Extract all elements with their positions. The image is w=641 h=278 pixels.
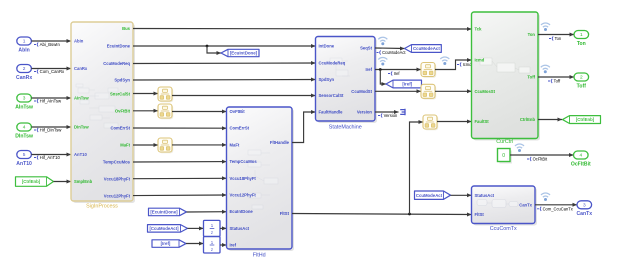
node junction FltSt — [408, 213, 411, 216]
svg-text:ComErrSt: ComErrSt — [110, 126, 130, 131]
signal label Version — [378, 113, 398, 118]
svg-text:Ton: Ton — [555, 36, 562, 41]
output port 2 Toff — [574, 73, 589, 89]
svg-text:4: 4 — [23, 125, 26, 131]
Goto tag CtrlEnb — [563, 116, 601, 124]
svg-text:AnT10: AnT10 — [74, 152, 87, 157]
wire Vccu12PhyFt to FltHd — [133, 193, 227, 197]
wire FltSt branch up to converter — [410, 120, 424, 214]
wire CcuModeAct to unit delay — [188, 226, 204, 230]
signal label Toff — [548, 79, 561, 84]
svg-text:SpdSyn: SpdSyn — [114, 78, 130, 83]
svg-text:ComErrSt: ComErrSt — [230, 126, 250, 131]
logging badge Ton — [541, 23, 550, 31]
svg-text:SnsrCalSt: SnsrCalSt — [110, 92, 131, 97]
svg-text:Hif_AnT10: Hif_AnT10 — [40, 155, 61, 160]
wire converter to CurCtrl CcuMosSt — [435, 89, 472, 93]
subsystem CurCtrl — [472, 12, 541, 145]
svg-text:CcuModeReq: CcuModeReq — [103, 61, 130, 66]
svg-text:Vccu18PhyFt: Vccu18PhyFt — [230, 176, 257, 181]
converter block on Iref/Icmd — [421, 63, 436, 78]
svg-text:Iref: Iref — [365, 67, 372, 72]
wire Ton to outport — [538, 33, 574, 37]
svg-text:CcuComTx: CcuComTx — [490, 226, 517, 232]
wire TempCcuMos to FltHd — [133, 160, 227, 164]
svg-text:Version: Version — [384, 113, 398, 118]
svg-text:CanTx: CanTx — [577, 211, 593, 217]
svg-text:[CtrlEnb]: [CtrlEnb] — [22, 179, 41, 184]
wire MaFt left stub — [133, 143, 158, 147]
wire MaFt to FltHd — [172, 143, 227, 147]
svg-text:StatusAct: StatusAct — [230, 226, 250, 231]
input port 5 AnT10 — [16, 151, 32, 167]
signal label Iref — [388, 71, 400, 76]
svg-text:[CcuModeAct]: [CcuModeAct] — [149, 226, 179, 231]
svg-text:Iref: Iref — [394, 71, 401, 76]
svg-text:OcFltBit: OcFltBit — [533, 157, 548, 162]
From tag EcuIntDone (bottom) — [149, 208, 187, 216]
svg-text:OcFltBit: OcFltBit — [571, 161, 591, 167]
wire CtrlEnb to Goto — [538, 118, 562, 122]
signal label Icmd — [457, 62, 472, 67]
wire ComErrSt to FltHd — [133, 126, 227, 130]
converter block on CcuModSt — [421, 84, 436, 99]
svg-text:Com_CcuCanTx: Com_CcuCanTx — [543, 207, 573, 212]
svg-text:[CtrlEnb]: [CtrlEnb] — [576, 117, 595, 122]
svg-text:MaFt: MaFt — [120, 143, 130, 148]
wire Iref to unit delay UD2 — [186, 242, 204, 246]
svg-text:DInTsw: DInTsw — [74, 125, 89, 130]
svg-text:DInTsw: DInTsw — [15, 133, 33, 139]
logging badge Iref — [378, 57, 387, 65]
unit delay UD1 — [204, 220, 221, 236]
wire Iref branch to Goto Iref — [380, 70, 386, 87]
wire CtrlEnb to SmplEnb — [54, 180, 72, 184]
svg-text:CtrlEnb: CtrlEnb — [520, 117, 536, 122]
svg-text:AbIn: AbIn — [18, 47, 29, 53]
logging badge OcFltBit — [515, 144, 524, 152]
node junction EcuIntDone — [206, 45, 209, 48]
svg-text:Bus: Bus — [122, 26, 131, 31]
svg-text:[EcuIntDone]: [EcuIntDone] — [150, 210, 178, 215]
svg-text:SmplEnb: SmplEnb — [74, 179, 93, 184]
From tag CcuModeAct (bottom-right) — [415, 191, 451, 199]
wire converter to CurCtrl Icmd — [435, 58, 472, 70]
From tag Iref (bottom-left) — [152, 240, 186, 248]
wire SnsrCalSt to StateMachine SensorCalSt — [172, 94, 316, 98]
wire constant to outport OcFltBit — [510, 153, 574, 157]
Goto tag Iref — [386, 80, 422, 88]
svg-text:IntDone: IntDone — [319, 44, 335, 49]
signal label Com_CcuCanTx — [537, 207, 573, 212]
signal label OcFltBit — [527, 157, 548, 162]
wire OvFtBit left stub — [133, 109, 158, 113]
subsystem CcuComTx — [472, 186, 538, 232]
svg-text:Toff: Toff — [554, 79, 561, 84]
signal label CcuModeAct — [377, 50, 407, 55]
svg-text:4: 4 — [579, 153, 582, 159]
signal label Hif_AInTsw — [34, 99, 62, 104]
wire CanRx to SigInProcess — [31, 67, 71, 71]
svg-text:AnT10: AnT10 — [16, 161, 32, 167]
wire UD1 to FltHd StatusAct — [220, 226, 227, 230]
svg-text:CanTx: CanTx — [519, 202, 532, 207]
wire branch to Goto EcuIntDone — [207, 46, 221, 55]
svg-text:SeqSt: SeqSt — [360, 46, 372, 51]
wire Iref to converter — [375, 68, 421, 72]
svg-text:OvFtBit: OvFtBit — [115, 109, 131, 114]
svg-text:Hif_DInTsw: Hif_DInTsw — [40, 128, 63, 133]
wire converter to CurCtrl FaultSt — [437, 120, 472, 124]
svg-text:CanRx: CanRx — [74, 66, 88, 71]
wire CanTx to outport — [535, 203, 577, 207]
svg-text:StatusAct: StatusAct — [475, 193, 495, 198]
svg-text:CcuModeAct: CcuModeAct — [413, 46, 440, 51]
signal label Hif_DInTsw — [34, 128, 62, 133]
svg-text:OvFtBit: OvFtBit — [230, 109, 246, 114]
output port 4 OcFltBit — [571, 151, 591, 167]
svg-text:0: 0 — [502, 153, 505, 159]
svg-text:MaFt: MaFt — [230, 142, 240, 147]
converter block on MaFt — [158, 138, 173, 153]
svg-text:3: 3 — [23, 96, 26, 102]
svg-text:FaultHandle: FaultHandle — [319, 110, 344, 115]
svg-text:Com_CanRx: Com_CanRx — [40, 69, 65, 74]
converter block on OvFtBit — [158, 104, 173, 119]
svg-text:AInTsw: AInTsw — [74, 96, 89, 101]
logging badge SeqSt — [378, 37, 387, 45]
wire OvFtBit to FltHd — [172, 110, 227, 114]
wire SnsrCalSt left stub — [133, 92, 158, 96]
svg-text:CurCtrl: CurCtrl — [496, 139, 513, 145]
svg-text:FltSt: FltSt — [280, 211, 290, 216]
signal label Ton — [549, 36, 562, 41]
svg-text:1: 1 — [23, 39, 26, 45]
svg-text:Hif_AInTsw: Hif_AInTsw — [40, 99, 62, 104]
signal label Hif_AnT10 — [34, 155, 61, 160]
svg-text:[EcuIntDone]: [EcuIntDone] — [230, 51, 258, 56]
wire CcuModeAct to CcuComTx StatusAct — [451, 193, 472, 197]
svg-text:1: 1 — [580, 32, 583, 38]
node junction Iref — [379, 68, 382, 71]
svg-text:EcuIntDone: EcuIntDone — [107, 44, 131, 49]
input port 3 AInTsw — [15, 94, 33, 110]
svg-text:CanRx: CanRx — [16, 75, 32, 81]
logging badge Icmd — [440, 57, 449, 65]
svg-text:2: 2 — [580, 75, 583, 81]
svg-text:CcuModeAct: CcuModeAct — [416, 193, 443, 198]
svg-text:FaultSt: FaultSt — [475, 119, 490, 124]
output port 1 Ton — [574, 31, 589, 47]
svg-text:z: z — [211, 247, 213, 252]
svg-text:3: 3 — [583, 202, 586, 208]
wire FltHandle to StateMachine FaultHandle — [292, 110, 316, 143]
wire DInTsw to SigInProcess — [31, 125, 71, 129]
Goto tag CcuModeAct — [405, 45, 442, 53]
svg-text:5: 5 — [23, 152, 26, 158]
svg-text:FltHandle: FltHandle — [270, 140, 290, 145]
svg-text:AInTsw: AInTsw — [15, 104, 33, 110]
svg-text:TempCcuMos: TempCcuMos — [103, 160, 131, 165]
logging badge Toff — [541, 65, 550, 73]
converter block on SnsrCalSt — [158, 87, 173, 102]
svg-text:SpdSyn: SpdSyn — [319, 77, 335, 82]
svg-text:[Iref]: [Iref] — [161, 241, 171, 246]
input port 1 AbIn — [17, 37, 32, 53]
converter block on FaultSt — [423, 115, 438, 130]
wire EcuIntDone to StateMachine IntDone — [133, 44, 316, 48]
svg-text:2: 2 — [23, 66, 26, 72]
constant 0 — [498, 149, 513, 164]
svg-text:StateMachine: StateMachine — [329, 125, 362, 131]
From tag CtrlEnb (left) — [16, 177, 54, 187]
input port 4 DInTsw — [15, 123, 33, 139]
svg-text:SigInProcess: SigInProcess — [86, 204, 118, 210]
svg-text:CcuMosSt: CcuMosSt — [475, 89, 496, 94]
svg-text:AbIn: AbIn — [74, 39, 84, 44]
svg-text:TempCcuMos: TempCcuMos — [230, 159, 258, 164]
wire FltSt to CcuComTx — [292, 213, 472, 217]
svg-text:FltSt: FltSt — [475, 212, 485, 217]
wire CcuModSt to converter — [375, 89, 421, 93]
svg-text:CcuModSt: CcuModSt — [351, 89, 372, 94]
wire Toff to outport — [538, 75, 574, 79]
svg-text:Vccu12PhyFt: Vccu12PhyFt — [104, 194, 131, 199]
svg-text:[Iref]: [Iref] — [402, 82, 412, 87]
svg-text:Toff: Toff — [527, 75, 535, 80]
svg-text:Icmd: Icmd — [463, 62, 473, 67]
logging badge CanTx — [541, 193, 550, 201]
svg-text:CcuModeAct: CcuModeAct — [382, 50, 406, 55]
svg-text:Tck: Tck — [475, 27, 483, 32]
svg-text:EcuIntDone: EcuIntDone — [230, 209, 254, 214]
wire Version to terminator — [375, 110, 399, 114]
svg-text:z: z — [211, 230, 213, 235]
svg-text:Iref: Iref — [230, 243, 237, 248]
wire Vccu18PhyFt to FltHd — [133, 176, 227, 180]
wire EcuIntDone to FltHd — [187, 210, 227, 214]
svg-text:Vccu12PhyFt: Vccu12PhyFt — [230, 193, 257, 198]
terminator Version — [400, 109, 405, 115]
output port 3 CanTx — [577, 201, 593, 217]
signal label Com_CanRx — [34, 69, 65, 74]
svg-text:Vccu18PhyFt: Vccu18PhyFt — [104, 177, 131, 182]
svg-text:Ton: Ton — [577, 41, 586, 47]
wire UD2 to FltHd Iref — [220, 243, 227, 247]
svg-text:Ton: Ton — [528, 32, 536, 37]
subsystem FltHd — [227, 107, 295, 259]
svg-text:Abi_BswIn: Abi_BswIn — [40, 42, 61, 47]
unit delay UD2 — [204, 237, 221, 253]
wire Bus to CurCtrl Tck — [133, 27, 472, 31]
wire AbIn to SigInProcess — [31, 39, 71, 43]
svg-text:Icmd: Icmd — [475, 58, 485, 63]
wire SpdSyn to StateMachine — [133, 78, 316, 82]
svg-text:CcuModeReq: CcuModeReq — [319, 60, 346, 65]
subsystem StateMachine — [316, 37, 378, 131]
signal label Abi_BswIn — [34, 42, 61, 47]
svg-text:Version: Version — [357, 110, 373, 115]
From tag CcuModeAct (bottom-left) — [148, 225, 188, 233]
wire AInTsw to SigInProcess — [31, 96, 71, 100]
wire SeqSt to Goto CcuModeAct — [375, 47, 405, 51]
wire AnT10 to SigInProcess — [31, 153, 71, 157]
svg-text:SensorCalSt: SensorCalSt — [319, 93, 345, 98]
svg-text:FltHd: FltHd — [253, 253, 266, 259]
subsystem SigInProcess — [71, 22, 135, 210]
svg-text:Toff: Toff — [577, 83, 587, 89]
wire CcuModeReq to StateMachine — [133, 61, 316, 65]
Goto tag EcuIntDone (top) — [221, 49, 259, 56]
input port 2 CanRx — [16, 65, 32, 81]
